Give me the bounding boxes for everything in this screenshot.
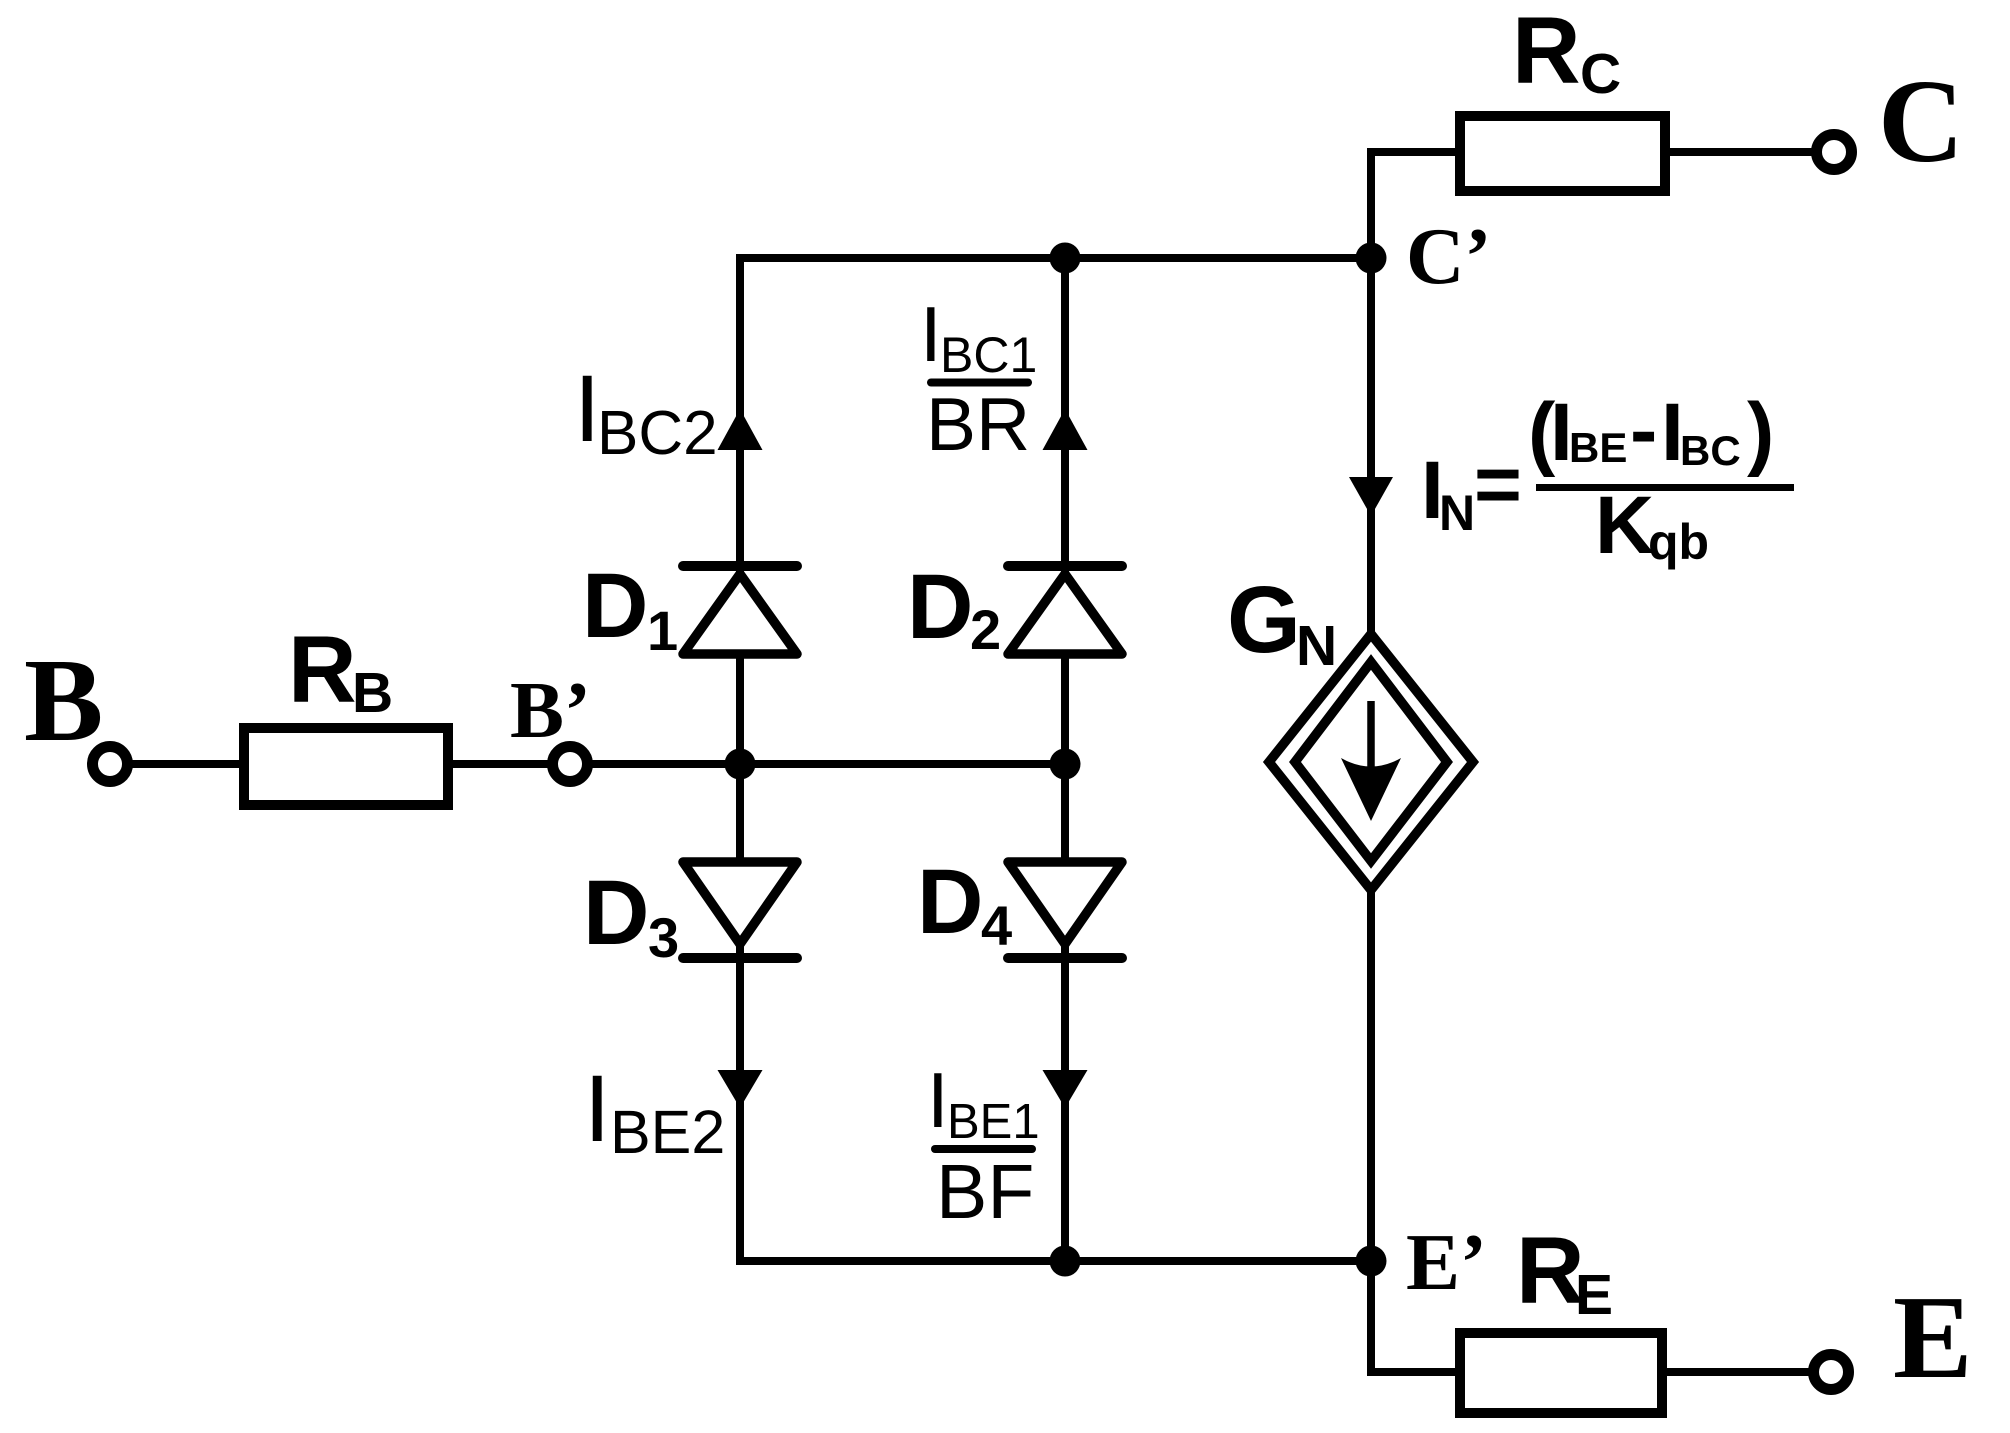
svg-text:C’: C’ xyxy=(1406,211,1491,301)
svg-text:D: D xyxy=(582,555,648,657)
svg-text:I: I xyxy=(920,290,942,378)
svg-text:R: R xyxy=(1512,0,1581,104)
svg-text:C: C xyxy=(1580,42,1621,106)
svg-text:I: I xyxy=(584,1056,610,1162)
svg-text:BC2: BC2 xyxy=(597,399,718,468)
svg-text:=: = xyxy=(1474,439,1522,530)
svg-text:R: R xyxy=(288,617,357,723)
svg-text:BE: BE xyxy=(1569,424,1627,471)
svg-text:-: - xyxy=(1630,385,1657,476)
svg-text:E’: E’ xyxy=(1406,1217,1487,1307)
svg-text:4: 4 xyxy=(981,894,1012,957)
svg-text:B’: B’ xyxy=(510,665,591,755)
svg-text:D: D xyxy=(583,862,649,964)
svg-text:BR: BR xyxy=(926,382,1030,466)
svg-text:): ) xyxy=(1747,387,1774,478)
svg-text:BE1: BE1 xyxy=(947,1095,1040,1149)
svg-text:B: B xyxy=(352,661,393,725)
svg-text:E: E xyxy=(1575,1263,1613,1327)
svg-text:I: I xyxy=(927,1056,949,1144)
svg-text:N: N xyxy=(1296,614,1337,678)
svg-text:1: 1 xyxy=(647,599,678,662)
svg-text:K: K xyxy=(1595,480,1654,571)
svg-text:G: G xyxy=(1227,567,1301,673)
svg-text:D: D xyxy=(917,851,983,953)
svg-text:BC1: BC1 xyxy=(940,327,1037,383)
svg-text:qb: qb xyxy=(1648,514,1709,570)
svg-text:3: 3 xyxy=(648,906,679,969)
svg-text:BC: BC xyxy=(1680,427,1741,474)
svg-text:BE2: BE2 xyxy=(610,1098,725,1166)
svg-text:C: C xyxy=(1878,55,1964,187)
svg-text:B: B xyxy=(24,634,103,766)
svg-text:E: E xyxy=(1893,1271,1972,1403)
svg-text:2: 2 xyxy=(970,598,1001,661)
svg-text:D: D xyxy=(907,556,973,658)
svg-text:BF: BF xyxy=(936,1149,1034,1235)
svg-text:N: N xyxy=(1439,485,1475,541)
